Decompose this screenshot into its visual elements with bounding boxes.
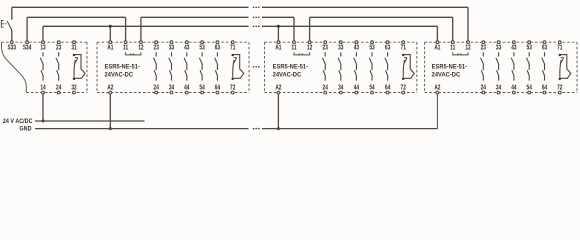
svg-text:64: 64	[542, 85, 548, 92]
svg-text:33: 33	[169, 45, 175, 52]
wire drop 12 module3	[309, 17, 311, 41]
svg-text:24: 24	[481, 85, 487, 92]
terminal 31 module1 (top)	[71, 41, 77, 52]
continuation dots between modules	[253, 66, 260, 68]
24V supply rail	[35, 120, 145, 122]
svg-text:64: 64	[385, 85, 391, 92]
terminal 34 module3 (bottom)	[338, 85, 344, 94]
terminal 24 module2 (bottom)	[154, 85, 160, 94]
terminal 53 module4 (top)	[527, 41, 533, 52]
svg-text:23: 23	[154, 45, 160, 52]
svg-text:12: 12	[465, 45, 471, 52]
svg-text:24VAC-DC: 24VAC-DC	[105, 72, 134, 78]
svg-text:63: 63	[385, 45, 391, 52]
terminal S34 module1 (top)	[23, 41, 32, 52]
relay module 4 dashed outline	[425, 42, 577, 92]
contact 43-44 module2	[184, 52, 187, 80]
terminal 11 module4 (top)	[450, 41, 456, 52]
svg-text:72: 72	[401, 85, 407, 92]
terminal 23 module3 (top)	[323, 41, 329, 52]
contact 23-24 module2	[154, 52, 157, 80]
terminal 11 module3 (top)	[291, 41, 297, 52]
terminal 54 module3 (bottom)	[369, 85, 375, 94]
node A1-module2 junction	[109, 25, 112, 28]
terminal 64 module4 (bottom)	[542, 85, 548, 94]
terminal S33 module1 (top)	[8, 41, 17, 52]
wire drop 11 module2	[125, 17, 127, 41]
svg-text:54: 54	[199, 85, 205, 92]
terminal 72 module3 (bottom)	[401, 85, 407, 94]
terminal A2 module4 (bottom)	[434, 85, 441, 94]
svg-text:24VAC-DC: 24VAC-DC	[432, 72, 461, 78]
svg-text:A1: A1	[434, 45, 441, 52]
terminal 63 module4 (top)	[542, 41, 548, 52]
svg-text:12: 12	[138, 45, 144, 52]
wire module3 A2 to GND rail	[277, 94, 280, 130]
svg-text:ESR5-NE-51-: ESR5-NE-51-	[105, 64, 140, 70]
wire drop S34	[26, 17, 28, 41]
svg-text:63: 63	[542, 45, 548, 52]
terminal 11 module2 (top)	[123, 41, 129, 52]
terminal 71 module2 (top)	[230, 41, 236, 52]
svg-text:32: 32	[71, 85, 77, 92]
svg-text:53: 53	[199, 45, 205, 52]
wire L3 supply bus (module1 13 to A1 terminals)	[43, 26, 437, 28]
terminal 24 module1 (bottom)	[56, 85, 62, 94]
contact 23-24 module1	[56, 52, 59, 80]
terminal 72 module4 (bottom)	[557, 85, 563, 94]
wire module2 A2 to GND rail	[109, 94, 112, 130]
wire L2c module3 12 to module4 11	[310, 16, 453, 18]
svg-text:54: 54	[527, 85, 533, 92]
svg-text:71: 71	[230, 45, 236, 52]
contact 43-44 module4	[511, 52, 514, 80]
svg-text:54: 54	[369, 85, 375, 92]
contact 71-72 module3 (NC mirror)	[402, 54, 414, 80]
svg-text:ESR5-NE-51-: ESR5-NE-51-	[432, 64, 467, 70]
svg-text:64: 64	[215, 85, 221, 92]
svg-text:24 V AC/DC: 24 V AC/DC	[3, 117, 33, 125]
svg-text:A2: A2	[275, 85, 282, 92]
wire drop 11 module4	[452, 17, 454, 41]
contact 33-34 module3	[338, 52, 341, 80]
contact 23-24 module4	[481, 52, 484, 80]
terminal 43 module3 (top)	[354, 41, 360, 52]
svg-text:A2: A2	[107, 85, 114, 92]
svg-text:34: 34	[496, 85, 502, 92]
contact 71-72 module2 (NC mirror)	[231, 54, 243, 80]
svg-text:11: 11	[450, 45, 456, 52]
svg-text:43: 43	[184, 45, 190, 52]
wire drop 13 module1	[42, 26, 44, 41]
terminal 63 module2 (top)	[215, 41, 221, 52]
terminal 53 module2 (top)	[199, 41, 205, 52]
svg-text:ESR5-NE-51-: ESR5-NE-51-	[273, 64, 308, 70]
terminal 23 module2 (top)	[154, 41, 160, 52]
contact 31-32 module1 (NC mirror)	[73, 54, 85, 80]
relay module 2 dashed outline	[97, 42, 249, 92]
terminal 33 module4 (top)	[496, 41, 502, 52]
terminal 34 module4 (bottom)	[496, 85, 502, 94]
svg-text:A2: A2	[434, 85, 441, 92]
terminal 23 module4 (top)	[481, 41, 487, 52]
svg-text:44: 44	[184, 85, 190, 92]
terminal 32 module1 (bottom)	[71, 85, 77, 94]
wire L2b module2 12 to module3 11	[141, 17, 294, 19]
node A1-module3 junction	[277, 25, 280, 28]
svg-text:A1: A1	[107, 45, 114, 52]
contact 33-34 module4	[496, 52, 499, 80]
wire drop A1 module4	[436, 26, 438, 41]
wire drop A1 module3	[277, 26, 279, 41]
svg-text:34: 34	[338, 85, 344, 92]
wire drop 12 module4	[467, 7, 469, 41]
wire drop A1 module2	[109, 26, 111, 41]
wire module4 A2 to GND rail corner	[436, 94, 438, 129]
value label ESR5-NE-51-24VAC-DC module4	[432, 64, 467, 78]
contact 23-24 module3	[323, 52, 326, 80]
svg-text:34: 34	[169, 85, 175, 92]
svg-text:53: 53	[527, 45, 533, 52]
terminal A2 module2 (bottom)	[107, 85, 114, 94]
svg-text:63: 63	[215, 45, 221, 52]
net label GND	[19, 125, 32, 133]
terminal 53 module3 (top)	[369, 41, 375, 52]
terminal 23 module1 (top)	[56, 41, 62, 52]
terminal 44 module2 (bottom)	[184, 85, 190, 94]
svg-text:GND: GND	[19, 125, 32, 133]
svg-text:24: 24	[56, 85, 62, 92]
terminal 33 module3 (top)	[338, 41, 344, 52]
terminal 71 module3 (top)	[401, 41, 407, 52]
svg-text:33: 33	[338, 45, 344, 52]
contact 63-64 module4	[542, 52, 545, 80]
svg-text:11: 11	[123, 45, 129, 52]
terminal 24 module3 (bottom)	[323, 85, 329, 94]
svg-text:44: 44	[511, 85, 517, 92]
terminal A1 module4 (top)	[434, 41, 441, 52]
svg-text:23: 23	[323, 45, 329, 52]
terminal 44 module3 (bottom)	[354, 85, 360, 94]
contact 13-14 module1	[40, 52, 43, 80]
svg-text:11: 11	[291, 45, 297, 52]
contact 53-54 module4	[527, 52, 530, 80]
wire drop S33	[11, 7, 13, 41]
relay module 3 dashed outline	[265, 42, 417, 92]
contact 43-44 module3	[354, 52, 357, 80]
terminal 12 module4 (top)	[465, 41, 471, 52]
terminal 13 module1 (top)	[40, 41, 46, 52]
contact 71-72 module4 (NC mirror)	[559, 54, 571, 80]
svg-text:13: 13	[40, 45, 46, 52]
contact 63-64 module3	[385, 52, 388, 80]
terminal 54 module2 (bottom)	[199, 85, 205, 94]
wire L2 S34 to module2 terminal 11	[27, 16, 126, 18]
terminal A1 module3 (top)	[275, 41, 282, 52]
svg-text:A1: A1	[275, 45, 282, 52]
svg-text:24: 24	[323, 85, 329, 92]
feedback link 11-12 module2	[126, 52, 141, 55]
GND rail	[35, 128, 437, 130]
relay module 1 dashed outline (torn)	[2, 42, 88, 92]
value label ESR5-NE-51-24VAC-DC module3	[273, 64, 308, 78]
terminal 71 module4 (top)	[557, 41, 563, 52]
terminal 63 module3 (top)	[385, 41, 391, 52]
contact 53-54 module2	[199, 52, 202, 80]
svg-text:44: 44	[354, 85, 360, 92]
svg-text:71: 71	[557, 45, 563, 52]
svg-text:31: 31	[71, 45, 77, 52]
terminal 12 module3 (top)	[307, 41, 313, 52]
contact 33-34 module2	[169, 52, 172, 80]
emergency stop switch E	[1, 20, 12, 30]
wire drop 11 module3	[293, 17, 295, 41]
contact 63-64 module2	[215, 52, 218, 80]
svg-text:23: 23	[481, 45, 487, 52]
feedback link 11-12 module3	[294, 52, 310, 55]
feedback link 11-12 module4	[453, 52, 468, 55]
svg-text:43: 43	[511, 45, 517, 52]
terminal 14 module1 (bottom)	[40, 85, 46, 94]
svg-text:72: 72	[230, 85, 236, 92]
svg-text:53: 53	[369, 45, 375, 52]
terminal 64 module2 (bottom)	[215, 85, 221, 94]
svg-text:14: 14	[40, 85, 46, 92]
value label ESR5-NE-51-24VAC-DC module2	[105, 64, 140, 78]
terminal 24 module4 (bottom)	[481, 85, 487, 94]
svg-text:S34: S34	[23, 45, 32, 52]
terminal 43 module4 (top)	[511, 41, 517, 52]
svg-text:71: 71	[401, 45, 407, 52]
svg-text:S33: S33	[8, 45, 17, 52]
svg-text:24: 24	[154, 85, 160, 92]
net label 24 V AC/DC	[3, 117, 33, 125]
terminal 33 module2 (top)	[169, 41, 175, 52]
wire drop 12 module2	[140, 17, 142, 41]
svg-text:12: 12	[307, 45, 313, 52]
svg-text:33: 33	[496, 45, 502, 52]
terminal A2 module3 (bottom)	[275, 85, 282, 94]
wire module1 14 to 24V rail	[42, 94, 45, 123]
terminal 64 module3 (bottom)	[385, 85, 391, 94]
terminal 72 module2 (bottom)	[230, 85, 236, 94]
terminal 54 module4 (bottom)	[527, 85, 533, 94]
terminal 43 module2 (top)	[184, 41, 190, 52]
svg-text:24VAC-DC: 24VAC-DC	[273, 72, 302, 78]
terminal 34 module2 (bottom)	[169, 85, 175, 94]
contact 53-54 module3	[369, 52, 372, 80]
svg-text:43: 43	[354, 45, 360, 52]
svg-text:23: 23	[56, 45, 62, 52]
wire L1 feedback-loop return (S33 to module4 12)	[12, 7, 468, 9]
svg-text:72: 72	[557, 85, 563, 92]
terminal 44 module4 (bottom)	[511, 85, 517, 94]
terminal A1 module2 (top)	[107, 41, 114, 52]
terminal 12 module2 (top)	[138, 41, 144, 52]
